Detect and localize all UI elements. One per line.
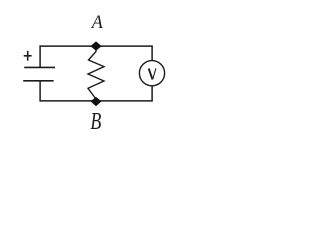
resistor R1 zigzag between node A and node B [88, 49, 104, 99]
wire: bottom horizontal from capacitor to voltmeter branch [40, 100, 153, 102]
node A junction dot (diamond) [90, 41, 101, 50]
wire: capacitor top lead (left vertical) [39, 45, 41, 67]
node label A [90, 12, 104, 34]
wire: top horizontal from capacitor to voltmeter branch [40, 45, 153, 47]
battery polarity mark + [24, 51, 32, 61]
voltmeter label V [149, 68, 156, 79]
svg-text:A: A [90, 12, 104, 34]
node B junction dot (diamond) [91, 97, 102, 106]
capacitor C1 bottom plate [23, 80, 53, 82]
wire: capacitor bottom lead (left vertical) [39, 81, 41, 102]
voltmeter M1 circle [139, 61, 164, 86]
svg-text:B: B [90, 107, 101, 134]
node label B [90, 107, 101, 134]
capacitor C1 top plate [24, 66, 55, 68]
wire: voltmeter top lead (right vertical) [151, 45, 153, 60]
wire: voltmeter bottom lead (right vertical) [151, 86, 153, 102]
